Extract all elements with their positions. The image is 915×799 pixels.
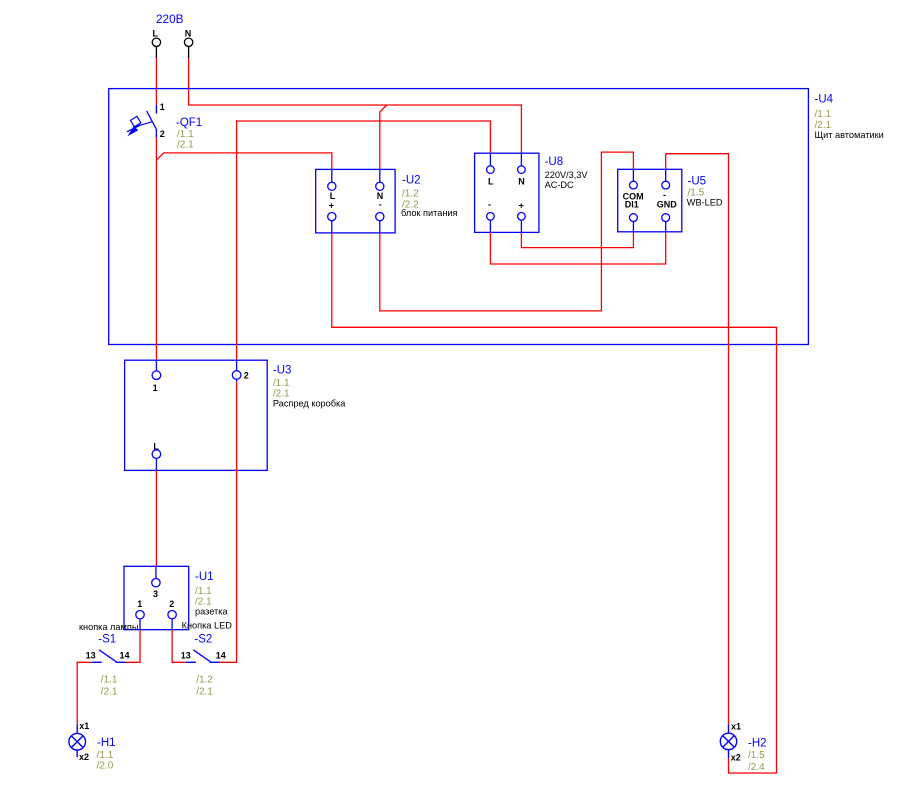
svg-text:-S1: -S1 [98, 633, 116, 645]
wire N terminal to U8 N pin (top horizontal) [189, 58, 522, 153]
label U3 [273, 365, 346, 409]
svg-text:блок питания: блок питания [401, 208, 458, 218]
svg-text:+: + [329, 201, 334, 211]
svg-text:Кнопка LED: Кнопка LED [182, 620, 233, 630]
svg-text:/1.1: /1.1 [97, 750, 114, 761]
svg-text:x2: x2 [79, 752, 89, 762]
label U8 [545, 156, 589, 190]
svg-text:-U4: -U4 [815, 94, 834, 106]
lamp H1 [69, 721, 89, 762]
wire U3 pin2 through-wire down to S2 contact 14 [220, 382, 237, 662]
svg-text:-: - [379, 200, 382, 210]
wire U3 pin2 top corner to U8 L pin [237, 121, 491, 360]
svg-text:2: 2 [160, 129, 165, 139]
svg-text:/2.1: /2.1 [196, 687, 213, 698]
svg-text:-: - [488, 200, 491, 210]
svg-text:-S2: -S2 [194, 633, 212, 645]
svg-text:WB-LED: WB-LED [687, 197, 723, 207]
label S2 refs [196, 675, 213, 698]
svg-text:220В: 220В [156, 14, 184, 26]
box U2 блок питания [316, 169, 395, 233]
svg-text:-U1: -U1 [195, 571, 214, 583]
label U4 [815, 94, 884, 141]
terminal N [184, 29, 192, 59]
svg-text:/1.2: /1.2 [402, 189, 419, 200]
wire branch jog to U2 N pin [380, 105, 387, 169]
svg-text:GND: GND [657, 199, 678, 209]
svg-text:-U8: -U8 [545, 156, 564, 168]
svg-text:/2.1: /2.1 [101, 687, 118, 698]
wire L terminal to QF1 pin 1 [155, 58, 157, 105]
svg-text:/1.1: /1.1 [273, 378, 290, 389]
switch S1 кнопка лампы [86, 633, 130, 662]
svg-text:L: L [153, 29, 159, 39]
svg-text:x2: x2 [731, 752, 741, 762]
svg-text:x1: x1 [731, 722, 741, 732]
svg-text:-U2: -U2 [402, 174, 421, 186]
svg-text:x1: x1 [79, 721, 89, 731]
svg-text:-H1: -H1 [97, 737, 116, 749]
wire U3 L down to U1 pin 3 [155, 470, 157, 566]
svg-text:L: L [330, 191, 336, 201]
box U3 Распред коробка [125, 360, 268, 470]
terminal L [152, 29, 160, 59]
svg-text:AC-DC: AC-DC [545, 180, 574, 190]
svg-text:2: 2 [244, 371, 249, 381]
box U5 WB-LED [618, 169, 682, 232]
wire U5 GND top to H2 x1 [666, 154, 729, 725]
switch S2 Кнопка LED [181, 633, 226, 662]
wire QF1 pin2 down to U3 pin 1 [155, 138, 157, 361]
svg-text:14: 14 [120, 651, 130, 661]
svg-text:/2.1: /2.1 [177, 140, 194, 151]
svg-text:/1.1: /1.1 [101, 675, 118, 686]
svg-text:/1.5: /1.5 [748, 750, 765, 761]
svg-text:/2.4: /2.4 [748, 762, 765, 773]
svg-text:кнопка лампы: кнопка лампы [79, 622, 138, 632]
label H2 [748, 737, 767, 773]
label U1 [195, 571, 228, 617]
label QF1 [176, 117, 202, 150]
box U1 разетка [124, 566, 189, 629]
svg-text:DI1: DI1 [625, 199, 639, 209]
lamp H2 [720, 722, 741, 763]
svg-text:1: 1 [153, 383, 158, 393]
label H1 [97, 737, 116, 771]
svg-text:/1.1: /1.1 [815, 109, 832, 120]
svg-text:Щит автоматики: Щит автоматики [815, 130, 884, 140]
box U8 AC-DC [475, 153, 539, 232]
svg-text:14: 14 [216, 651, 226, 661]
svg-text:/1.2: /1.2 [196, 675, 213, 686]
svg-text:-QF1: -QF1 [176, 117, 202, 129]
svg-text:13: 13 [181, 651, 191, 661]
wire U2 N- bottom to U5 COM top [380, 152, 634, 311]
svg-text:2: 2 [169, 599, 174, 609]
svg-text:220V/3,3V: 220V/3,3V [545, 170, 589, 180]
label U2 [401, 174, 458, 218]
svg-text:/2.0: /2.0 [97, 760, 114, 771]
svg-text:+: + [519, 200, 524, 210]
svg-text:1: 1 [137, 599, 142, 609]
svg-text:/1.1: /1.1 [195, 586, 212, 597]
label S1 refs [101, 675, 118, 698]
wire U8 + bottom to U5 COM bottom [521, 232, 633, 248]
svg-text:13: 13 [86, 651, 96, 661]
box U4 Щит автоматики [109, 89, 809, 345]
svg-text:N: N [518, 176, 525, 186]
svg-text:L: L [488, 176, 494, 186]
wire U2 L+ bottom to H2 x2 loop [332, 233, 777, 773]
svg-text:3: 3 [153, 589, 158, 599]
breaker QF1 [127, 102, 165, 139]
wire U1 pin2 down to S2 contact 13 [172, 630, 186, 663]
svg-text:-U5: -U5 [688, 175, 707, 187]
svg-text:-U3: -U3 [273, 365, 292, 377]
label U5 [687, 175, 723, 207]
svg-text:Распред коробка: Распред коробка [273, 398, 346, 408]
wire S1 contact 13 to H1 x1 [77, 662, 92, 724]
svg-text:N: N [185, 29, 192, 39]
svg-text:1: 1 [160, 102, 165, 112]
svg-text:разетка: разетка [195, 607, 228, 617]
wire U1 pin1 down to S1 contact 14 [126, 630, 140, 663]
wire jog branch QF1 to U2 L pin [156, 153, 331, 170]
svg-text:-H2: -H2 [748, 737, 767, 749]
svg-text:/1.1: /1.1 [177, 129, 194, 140]
wire U8 - bottom to U5 GND bottom [490, 232, 665, 264]
